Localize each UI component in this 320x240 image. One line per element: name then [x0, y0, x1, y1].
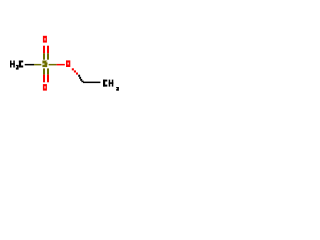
atom label H (of H3C methyl)	[10, 61, 15, 68]
atom S	[42, 61, 47, 68]
atom O (ester)	[66, 60, 70, 67]
atom O (bottom, double bonded)	[43, 84, 47, 91]
bond O-CH2 diagonal (oxygen half)	[72, 68, 78, 74]
bond C-S (black half)	[25, 64, 34, 66]
bond CH2-CH3	[83, 82, 100, 84]
bond C-S (sulfur half)	[34, 64, 41, 66]
bond S-O ester (oxygen half)	[57, 64, 65, 66]
subscript 3 (of CH3)	[116, 87, 119, 91]
atom label C (of CH3)	[103, 80, 107, 87]
atom O (top, double bonded)	[43, 36, 47, 43]
double bond S=O bottom, left line	[43, 68, 45, 82]
atom label C (of H3C)	[19, 61, 23, 68]
bond S-O ester (sulfur half)	[49, 64, 57, 66]
bond O-CH2 diagonal (carbon half)	[78, 75, 83, 83]
atom label H (of CH3)	[109, 80, 114, 87]
double bond S=O bottom, right line	[47, 68, 49, 82]
double bond S=O top, right line	[47, 46, 49, 60]
subscript 3 (of H3C)	[16, 65, 19, 70]
double bond S=O top, left line	[43, 46, 45, 60]
